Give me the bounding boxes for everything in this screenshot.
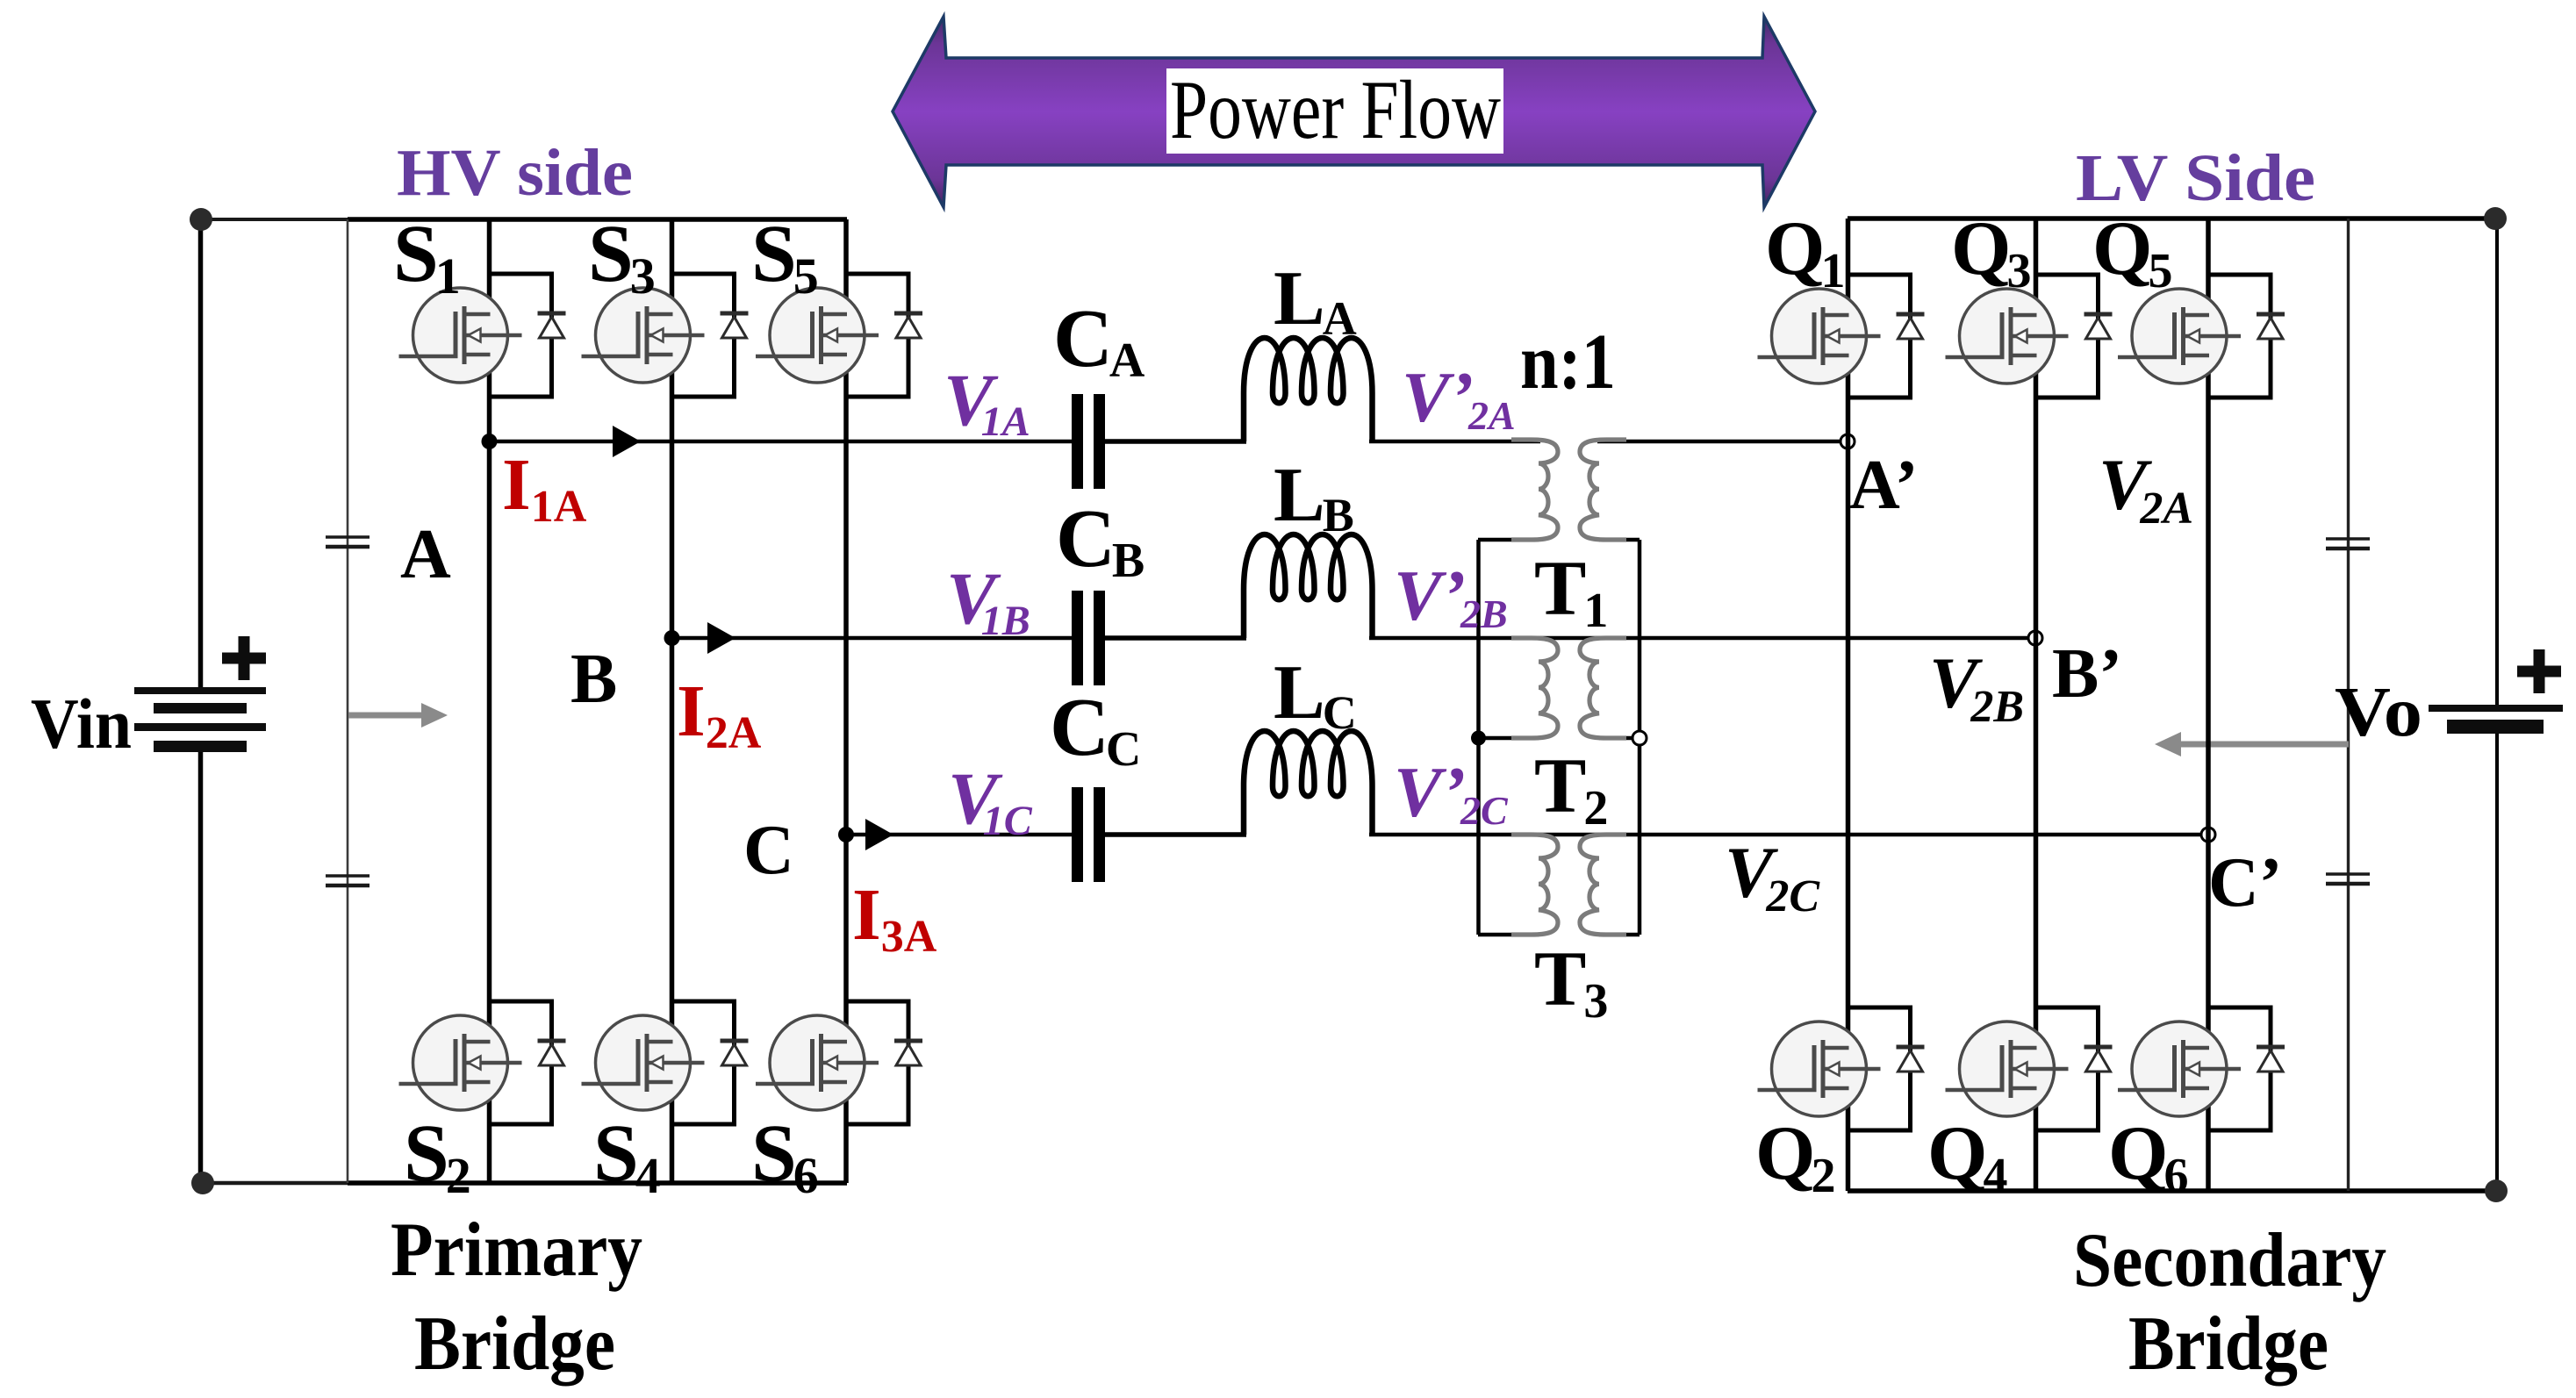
capacitor: LV dc-link upper <box>2326 539 2370 548</box>
arrow: I1A direction on phase A wire <box>613 426 641 457</box>
arrow: I3A direction on phase C wire <box>865 819 893 850</box>
transistor S1 <box>399 274 566 397</box>
node: primary star junction <box>1471 731 1486 746</box>
wire: leg S5/S6 <box>843 219 849 1183</box>
transistor Q1 <box>1758 275 1925 398</box>
wire: leg S3/S4 <box>670 219 675 1183</box>
wire: LV dc-link capacitor leg <box>2347 219 2350 1191</box>
svg-text:Bridge: Bridge <box>414 1301 615 1387</box>
wire: leg Q1/Q2 <box>1846 219 1851 1191</box>
svg-text:Vo: Vo <box>2335 674 2422 751</box>
svg-text:HV side: HV side <box>397 136 633 210</box>
arrow: grey current arrow right <box>348 713 421 719</box>
wire: LV right rail upper <box>2495 219 2499 707</box>
svg-text:Primary: Primary <box>391 1208 642 1293</box>
transistor Q6 <box>2118 1007 2285 1130</box>
wire: LV right rail lower <box>2495 733 2499 1191</box>
transistor S2 <box>399 1001 566 1124</box>
transistor S4 <box>582 1001 749 1124</box>
inductor LB <box>1244 534 1373 638</box>
capacitor: HV dc-link lower <box>326 876 370 885</box>
transistor Q3 <box>1946 275 2113 398</box>
capacitor CC <box>1072 787 1105 882</box>
transformer T1 secondary winding <box>1580 440 1626 540</box>
wire: T1 secondary bottom connection <box>1599 538 1640 542</box>
transistor Q4 <box>1946 1007 2113 1130</box>
capacitor CA <box>1072 394 1105 489</box>
power flow double arrow <box>893 17 1815 207</box>
battery Vin <box>134 636 266 752</box>
node B junction <box>664 630 680 646</box>
wire: T1 primary bottom connection <box>1478 538 1539 542</box>
node: top-left junction <box>190 208 212 231</box>
node: bottom-right junction <box>2485 1179 2508 1202</box>
svg-text:Secondary: Secondary <box>2073 1218 2386 1303</box>
wire: HV bottom rail <box>200 1181 349 1186</box>
arrow: I2A direction on phase B wire <box>707 622 735 654</box>
wire: T3 secondary bottom connection <box>1599 933 1640 937</box>
wire: leg Q3/Q4 <box>2034 219 2039 1191</box>
svg-text:LV Side: LV Side <box>2076 141 2315 215</box>
wire: phase A from bridge to capacitor CA <box>489 440 1072 444</box>
capacitor: LV dc-link lower <box>2326 874 2370 884</box>
wire: HV dc-link capacitor leg <box>347 219 349 1183</box>
wire: HV left rail upper <box>198 219 204 688</box>
transformer T2 secondary winding <box>1580 638 1626 738</box>
inductor LA <box>1244 338 1373 441</box>
wire: phase A from CA to LA <box>1105 439 1246 444</box>
wire: T2 secondary bottom connection <box>1599 736 1640 741</box>
transformer T3 primary winding <box>1511 835 1558 935</box>
svg-text:C’: C’ <box>2208 844 2282 921</box>
inductor LC <box>1244 731 1373 835</box>
svg-text:Vin: Vin <box>31 684 132 764</box>
transistor S6 <box>756 1001 922 1124</box>
svg-text:Bridge: Bridge <box>2128 1301 2328 1387</box>
wire: transformer primary star bus <box>1476 540 1481 935</box>
node C' (open) <box>2201 828 2215 842</box>
node: top-right junction <box>2484 207 2507 230</box>
transformer T3 secondary winding <box>1580 835 1626 935</box>
transistor S5 <box>756 274 922 397</box>
transistor S3 <box>582 274 749 397</box>
wire: HV left rail lower <box>198 751 204 1183</box>
transistor Q2 <box>1758 1007 1925 1130</box>
svg-text:B: B <box>570 641 617 718</box>
svg-text:Power Flow: Power Flow <box>1170 63 1501 156</box>
transformer T1 primary winding <box>1511 440 1558 540</box>
wire: T2 primary bottom connection <box>1478 736 1539 741</box>
arrow: grey current arrow left <box>2181 742 2349 748</box>
wire: phase A from LA to transformer T1 primary <box>1369 440 1540 444</box>
wire: leg Q5/Q6 <box>2206 219 2211 1191</box>
wire: HV top rail <box>200 218 349 221</box>
wire: leg S1/S2 <box>487 219 492 1183</box>
wire: LV top rail <box>1848 216 2497 221</box>
wire: transformer secondary star bus <box>1638 540 1642 935</box>
svg-text:A’: A’ <box>1849 447 1918 524</box>
wire: phase B from bridge to B' <box>671 636 1072 641</box>
capacitor CB <box>1072 591 1105 685</box>
svg-text:n:1: n:1 <box>1520 319 1616 405</box>
wire: phase C from bridge to C' <box>846 833 1072 837</box>
svg-text:B’: B’ <box>2052 635 2122 713</box>
wire: T3 primary bottom connection <box>1478 933 1539 937</box>
battery Vo <box>2429 649 2563 734</box>
wire: phase A' T1 secondary to LV bridge <box>1597 440 1848 444</box>
svg-text:A: A <box>400 516 451 593</box>
node C junction <box>838 827 854 842</box>
node: bottom-left junction <box>191 1172 214 1194</box>
node: secondary star junction (open) <box>1632 731 1647 745</box>
node B' (open) <box>2028 631 2042 645</box>
node A junction <box>482 434 498 449</box>
wire: LV bottom rail <box>1848 1188 2497 1194</box>
transistor Q5 <box>2118 275 2285 398</box>
svg-text:C: C <box>743 812 794 889</box>
capacitor: HV dc-link upper <box>326 537 370 547</box>
power flow label box <box>1166 68 1503 154</box>
transformer T2 primary winding <box>1511 638 1558 738</box>
node A' (open) <box>1841 434 1855 448</box>
